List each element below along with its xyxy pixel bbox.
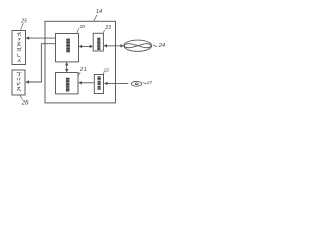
- wire 22 to 21 with arrow: [79, 82, 94, 84]
- svg-text:25: 25: [20, 19, 27, 25]
- box 20 control unit: [56, 34, 79, 62]
- label ~24: [153, 45, 157, 47]
- double arrow 23 - network 24: [104, 45, 123, 47]
- wire 20 to 26 (down at left) with arrow: [26, 44, 56, 82]
- outer box 14: [45, 21, 116, 103]
- wire disc 27 to box 22 with arrow: [105, 82, 129, 84]
- svg-text:26: 26: [21, 101, 29, 107]
- text プリンタ in box 26: [17, 72, 22, 91]
- leader for 21: [78, 72, 80, 75]
- svg-text:27: 27: [146, 80, 153, 86]
- double arrow 20 - 21: [66, 63, 68, 71]
- leader for 23: [103, 30, 105, 33]
- leader for 20: [77, 29, 79, 33]
- wire 20 to 25 with arrow: [26, 37, 55, 39]
- disc 27 (recording medium): [131, 81, 141, 86]
- double arrow 20 - 23: [80, 45, 93, 47]
- svg-text:21: 21: [79, 67, 88, 73]
- svg-text:23: 23: [104, 25, 111, 31]
- network ellipse 24: [124, 40, 152, 51]
- svg-text:20: 20: [79, 24, 86, 30]
- leader for 26: [20, 95, 23, 99]
- box 25 display: [12, 31, 26, 65]
- text ディスプレイ in box 25: [17, 32, 22, 62]
- box 26 printer: [12, 70, 25, 95]
- leader for 14: [94, 15, 97, 21]
- text 記憶部 in box 21: [66, 78, 70, 92]
- svg-text:14: 14: [96, 9, 102, 15]
- svg-text:24: 24: [158, 43, 165, 49]
- text 通信部 in box 23: [97, 38, 100, 50]
- text 読取部 in box 22: [98, 76, 101, 89]
- leader for 22: [103, 72, 104, 74]
- leader for 25: [21, 23, 24, 30]
- box 23 communication unit: [93, 33, 103, 51]
- box 21 storage unit: [56, 73, 79, 94]
- box 22 media reading unit: [94, 75, 103, 94]
- text 制御部 in box 20: [66, 39, 70, 53]
- label ~27: [143, 82, 147, 83]
